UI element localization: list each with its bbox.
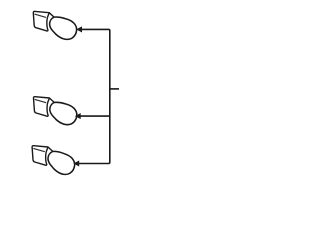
device 2 (middle) (33, 97, 76, 125)
device 3 (bottom) (32, 146, 75, 175)
wire: right stub off the bus (110, 88, 119, 90)
arrowhead to device 3 (73, 160, 79, 166)
wire: middle branch (80, 115, 110, 117)
arrowhead to device 2 (75, 113, 81, 119)
arrowhead to device 1 (76, 26, 82, 32)
device 1 (top) (33, 11, 76, 39)
wire: top branch, vertical bus and bottom branch (79, 29, 110, 163)
